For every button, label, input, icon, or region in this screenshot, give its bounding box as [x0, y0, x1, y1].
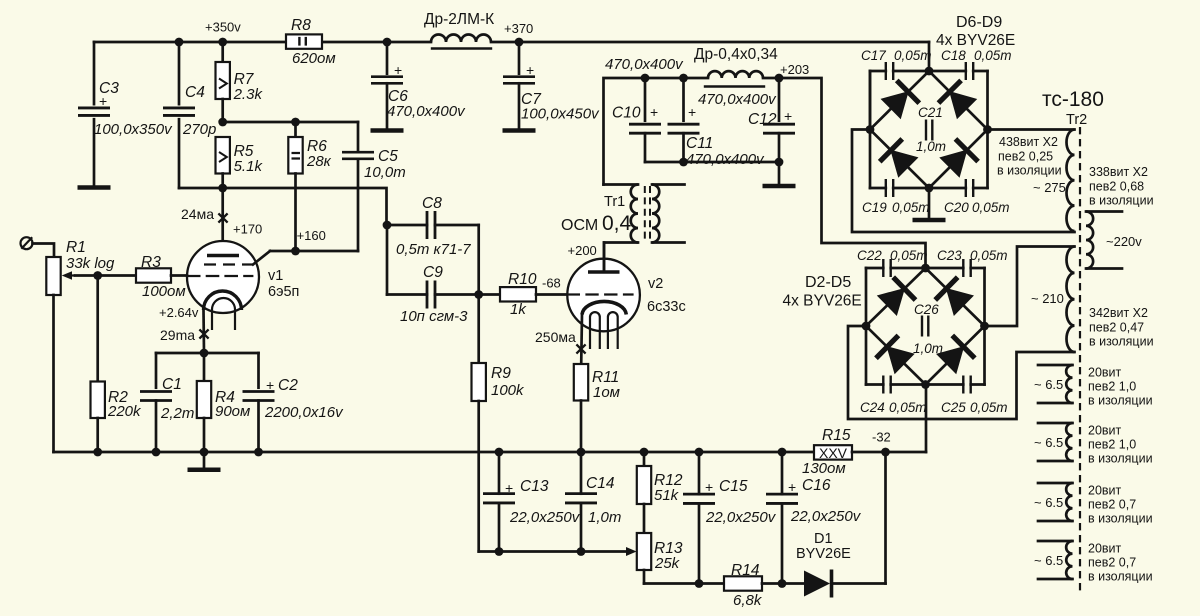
svg-text:C19: C19	[862, 200, 887, 215]
wire v1 cathode node	[156, 352, 259, 355]
svg-text:R14: R14	[731, 562, 760, 579]
capacitor C19	[862, 179, 930, 215]
resistor R2	[91, 276, 143, 453]
wire C10-C11-C12 bottom	[645, 161, 779, 164]
svg-text:+370: +370	[504, 21, 533, 36]
svg-text:220k: 220k	[107, 403, 142, 420]
svg-text:пев2 0,47: пев2 0,47	[1089, 320, 1144, 334]
node +370 label	[504, 21, 533, 36]
svg-text:1k: 1k	[510, 301, 527, 318]
ground bridge D6-D9	[913, 188, 946, 220]
resistor R8	[286, 17, 336, 67]
svg-text:+: +	[788, 479, 796, 495]
label +200	[568, 243, 597, 258]
svg-text:ОСМ: ОСМ	[561, 217, 598, 234]
svg-text:+: +	[394, 62, 402, 78]
svg-text:100ом: 100ом	[142, 283, 186, 300]
svg-text:v2: v2	[648, 276, 663, 292]
svg-text:22,0x250v: 22,0x250v	[790, 508, 862, 525]
wire D1 to -32 node	[884, 452, 887, 584]
svg-text:XXV: XXV	[819, 445, 848, 461]
node dot R6 bottom	[291, 247, 300, 256]
svg-text:25k: 25k	[654, 555, 681, 572]
node dot bridge2 top	[921, 264, 930, 273]
svg-text:C14: C14	[586, 475, 615, 492]
node dot bridge2 right	[980, 322, 989, 331]
svg-text:в изоляции: в изоляции	[1088, 512, 1153, 526]
capacitor C23	[937, 248, 1008, 277]
svg-text:в изоляции: в изоляции	[1089, 194, 1154, 208]
svg-text:4x BYV26E: 4x BYV26E	[936, 32, 1015, 49]
capacitor C25	[941, 376, 1008, 416]
svg-text:C18: C18	[941, 48, 966, 63]
svg-text:0,05m: 0,05m	[894, 48, 932, 63]
svg-text:+: +	[650, 104, 658, 120]
svg-text:0,05m: 0,05m	[970, 400, 1008, 415]
svg-text:20вит: 20вит	[1088, 366, 1122, 380]
svg-text:~220v: ~220v	[1106, 234, 1142, 249]
svg-text:20вит: 20вит	[1088, 484, 1122, 498]
resistor R10	[479, 271, 568, 318]
svg-text:0,05m: 0,05m	[889, 400, 927, 415]
capacitor C5	[342, 122, 406, 251]
svg-text:C20: C20	[944, 200, 969, 215]
svg-text:C5: C5	[378, 148, 398, 165]
capacitor C18	[941, 48, 1012, 80]
svg-text:438вит Х2: 438вит Х2	[999, 135, 1058, 149]
transformer Tr1 ОСМ 0,4	[561, 185, 685, 273]
svg-text:20вит: 20вит	[1088, 424, 1122, 438]
label D6-D9	[936, 14, 1015, 49]
svg-text:D1: D1	[814, 531, 833, 547]
node dot v2 grid	[474, 290, 483, 299]
svg-text:R1: R1	[66, 239, 86, 256]
node dot bridge1 top	[925, 67, 934, 76]
svg-text:100,0x450v: 100,0x450v	[521, 106, 600, 123]
Tr2 winding 20вит #3	[1034, 483, 1153, 526]
svg-text:51k: 51k	[654, 487, 680, 504]
svg-text:C9: C9	[423, 264, 443, 281]
wire R1 wiper to R3	[75, 274, 136, 277]
svg-text:пев2 1,0: пев2 1,0	[1088, 379, 1136, 393]
Tr2 winding 220v	[1086, 165, 1154, 269]
svg-text:C8: C8	[422, 195, 442, 212]
Tr2 winding 20вит #4	[1034, 541, 1153, 584]
diode D7	[938, 80, 976, 118]
svg-text:+: +	[266, 377, 274, 393]
svg-text:D6-D9: D6-D9	[956, 14, 1002, 31]
node +350v label	[205, 20, 241, 35]
node dot C10 top	[641, 74, 650, 83]
svg-text:10п сгм-3: 10п сгм-3	[400, 308, 468, 325]
capacitor C6	[371, 42, 466, 129]
wire bridge2 AC left	[848, 326, 1075, 419]
svg-text:470,0x400v: 470,0x400v	[698, 91, 777, 108]
resistor R11	[574, 364, 620, 452]
capacitor C22	[857, 248, 928, 277]
node dot bridge1 bottom	[925, 184, 934, 193]
svg-text:+: +	[688, 104, 696, 120]
svg-text:338вит Х2: 338вит Х2	[1089, 165, 1148, 179]
node dot +350v	[218, 38, 227, 47]
resistor R4	[197, 353, 251, 452]
svg-text:90ом: 90ом	[215, 403, 250, 420]
capacitor C11	[668, 78, 766, 168]
resistor R14	[724, 562, 804, 609]
node dot gnd C13	[495, 448, 504, 457]
svg-text:C23: C23	[937, 248, 962, 263]
svg-text:+203: +203	[780, 62, 809, 77]
resistor R12	[637, 452, 683, 504]
resistor R6	[288, 122, 331, 251]
svg-text:+: +	[526, 62, 534, 78]
wire bridge2 AC right	[985, 247, 1075, 327]
inductor Др-0,4х0,34	[694, 46, 778, 87]
svg-text:~ 6.5: ~ 6.5	[1034, 495, 1063, 510]
Tr2 winding 20вит #1	[1034, 365, 1153, 408]
svg-text:Tr1: Tr1	[604, 194, 625, 210]
node dot C6 top	[383, 38, 392, 47]
svg-text:~ 6.5: ~ 6.5	[1034, 435, 1063, 450]
resistor R5	[216, 137, 264, 188]
svg-text:~ 210: ~ 210	[1031, 291, 1064, 306]
node dot bridge1 right	[983, 125, 992, 134]
node dot C11 bottom	[679, 158, 688, 167]
wire bridge2 frame	[866, 268, 985, 385]
label 29ma with X	[160, 327, 209, 343]
capacitor C9	[387, 264, 479, 325]
svg-text:29ma: 29ma	[160, 327, 195, 343]
svg-text:0,05m: 0,05m	[974, 48, 1012, 63]
svg-text:пев2 0,25: пев2 0,25	[998, 149, 1053, 163]
svg-text:C16: C16	[802, 477, 831, 494]
svg-text:+: +	[705, 479, 713, 495]
svg-text:342вит Х2: 342вит Х2	[1089, 306, 1148, 320]
svg-text:0,4: 0,4	[602, 212, 632, 235]
svg-text:Др-2ЛМ-К: Др-2ЛМ-К	[424, 11, 494, 28]
node dot R6 top	[291, 118, 300, 127]
svg-text:в изоляции: в изоляции	[1088, 570, 1153, 584]
capacitor C10	[605, 56, 684, 162]
wire bias wiper rail	[479, 547, 637, 556]
node dot gnd C15	[695, 448, 704, 457]
wire v1 anode node	[179, 188, 387, 225]
wire -32 to bridge D2-D5	[925, 385, 928, 453]
svg-text:+: +	[784, 108, 792, 124]
svg-text:+: +	[99, 93, 107, 109]
ground C7	[503, 128, 536, 133]
svg-text:C22: C22	[857, 248, 882, 263]
resistor R7	[216, 42, 264, 122]
wire +350v/+370 top rail	[94, 42, 929, 71]
svg-text:R8: R8	[291, 17, 311, 34]
svg-text:C24: C24	[860, 400, 885, 415]
svg-text:130ом: 130ом	[802, 460, 846, 477]
capacitor C15	[683, 452, 777, 584]
diode D1 BYV26E	[796, 531, 886, 598]
diode D4	[876, 335, 914, 373]
svg-text:пев2 0,7: пев2 0,7	[1088, 497, 1136, 511]
svg-text:0,05m: 0,05m	[890, 248, 928, 263]
svg-text:C13: C13	[520, 478, 549, 495]
Tr2 winding 438вит	[997, 130, 1075, 232]
svg-text:тс-180: тс-180	[1042, 88, 1104, 111]
triode v1 6э5п	[187, 188, 299, 353]
svg-text:270p: 270p	[182, 121, 216, 138]
svg-text:5.1k: 5.1k	[234, 158, 264, 175]
node dot +203	[775, 74, 784, 83]
svg-text:~ 6.5: ~ 6.5	[1034, 553, 1063, 568]
svg-text:24ма: 24ма	[181, 206, 214, 222]
label +160	[297, 228, 326, 243]
svg-text:2200,0x16v: 2200,0x16v	[264, 404, 344, 421]
potentiometer R1	[46, 239, 115, 452]
capacitor C13	[483, 452, 581, 552]
node dot C11 top	[679, 74, 688, 83]
diode D8	[880, 139, 918, 177]
svg-text:+170: +170	[233, 222, 262, 237]
svg-text:в изоляции: в изоляции	[1088, 394, 1153, 408]
ground symbol bottom rail	[188, 452, 221, 470]
svg-text:Др-0,4x0,34: Др-0,4x0,34	[694, 46, 778, 63]
diode D2	[878, 277, 916, 315]
label +170	[233, 222, 262, 237]
diode D6	[881, 80, 919, 118]
label D2-D5	[783, 274, 862, 310]
svg-text:28к: 28к	[306, 153, 332, 170]
resistor R3	[136, 254, 187, 300]
svg-text:0,05m: 0,05m	[892, 200, 930, 215]
svg-text:22,0x250v: 22,0x250v	[509, 509, 581, 526]
svg-text:1,0m: 1,0m	[588, 509, 621, 526]
node dot C12 bottom	[775, 158, 784, 167]
svg-text:+200: +200	[568, 243, 597, 258]
capacitor C21	[916, 105, 946, 154]
svg-text:+160: +160	[297, 228, 326, 243]
ground C6	[371, 128, 404, 133]
wire -32 rail	[852, 451, 926, 454]
svg-text:C11: C11	[686, 135, 713, 152]
svg-text:в изоляции: в изоляции	[1089, 335, 1154, 349]
capacitor C24	[860, 376, 927, 416]
svg-text:1,0m: 1,0m	[916, 139, 946, 154]
node dot C14 bottom	[577, 547, 586, 556]
svg-text:C10: C10	[612, 105, 641, 122]
wire node +160 feed line	[223, 121, 358, 124]
diode D9	[940, 139, 978, 177]
svg-text:C25: C25	[941, 400, 966, 415]
svg-text:C1: C1	[162, 376, 182, 393]
svg-text:100k: 100k	[491, 382, 525, 399]
node dot gnd C16	[778, 448, 787, 457]
svg-text:C21: C21	[918, 105, 943, 120]
label 250ма with X	[535, 329, 586, 354]
svg-text:C4: C4	[185, 84, 205, 101]
svg-text:R15: R15	[822, 427, 851, 444]
svg-text:0,05m: 0,05m	[972, 200, 1010, 215]
svg-text:1ом: 1ом	[593, 384, 620, 401]
node dot v1 cathode	[200, 349, 209, 358]
capacitor C8	[387, 195, 479, 258]
transformer Tr2 тс-180 core	[1042, 88, 1104, 592]
capacitor C17	[861, 48, 932, 80]
svg-text:v1: v1	[268, 268, 283, 284]
svg-text:C12: C12	[748, 111, 777, 128]
resistor R15	[802, 427, 852, 477]
svg-text:R3: R3	[141, 254, 161, 271]
capacitor C16	[766, 452, 862, 584]
svg-text:2.3k: 2.3k	[233, 86, 264, 103]
resistor R9	[472, 295, 526, 552]
svg-text:6э5п: 6э5п	[268, 284, 299, 300]
svg-text:-32: -32	[872, 430, 891, 445]
label -32	[872, 430, 891, 445]
node dot gnd R2	[93, 448, 102, 457]
svg-text:в изоляции: в изоляции	[997, 164, 1062, 178]
svg-text:4x BYV26E: 4x BYV26E	[783, 293, 862, 310]
ground C3	[78, 185, 111, 190]
svg-text:2,2m: 2,2m	[160, 405, 194, 422]
node dot v1 anode	[218, 184, 227, 193]
svg-text:+: +	[505, 480, 513, 496]
node dot bridge1 left	[866, 125, 875, 134]
Tr2 winding 20вит #2	[1034, 423, 1153, 466]
node dot R2 top	[93, 271, 102, 280]
svg-text:C15: C15	[719, 478, 748, 495]
svg-text:+350v: +350v	[205, 20, 241, 35]
node dot C4 top	[175, 38, 184, 47]
svg-text:пев2 0,7: пев2 0,7	[1088, 555, 1136, 569]
node dot C16 bottom	[778, 579, 787, 588]
triode v2 6с33с	[567, 243, 685, 365]
capacitor C20	[944, 179, 1010, 215]
capacitor C26	[913, 302, 943, 356]
Tr2 winding 342вит	[1031, 247, 1154, 353]
svg-text:Tr2: Tr2	[1066, 112, 1087, 128]
node dot C15 bottom	[695, 579, 704, 588]
svg-text:470,0x400v: 470,0x400v	[686, 151, 765, 168]
node dot R5 top	[218, 118, 227, 127]
svg-text:пев2 1,0: пев2 1,0	[1088, 437, 1136, 451]
wire bridge2 plus to +203	[779, 78, 926, 268]
svg-text:0,5m к71-7: 0,5m к71-7	[396, 241, 471, 258]
label -68	[542, 276, 561, 291]
svg-text:22,0x250v: 22,0x250v	[705, 509, 777, 526]
wire bias bottom rail	[644, 582, 724, 585]
label +2.64v	[159, 305, 199, 320]
diode D3	[935, 277, 973, 315]
rectifier bridge D6-D9	[869, 71, 872, 130]
wire bridge1 frame	[870, 71, 988, 188]
capacitor C12	[698, 78, 795, 184]
svg-text:C26: C26	[914, 302, 939, 317]
svg-text:в изоляции: в изоляции	[1088, 452, 1153, 466]
label +203	[780, 62, 809, 77]
capacitor C7	[503, 42, 600, 129]
svg-text:6с33с: 6с33с	[647, 299, 686, 315]
capacitor C3	[78, 42, 173, 186]
svg-text:+2.64v: +2.64v	[159, 305, 199, 320]
node dot gnd C1	[152, 448, 161, 457]
svg-text:C17: C17	[861, 48, 886, 63]
wire anode to C8/C9	[386, 225, 389, 295]
wire C8 right to grid node	[477, 225, 480, 295]
svg-text:пев2 0,68: пев2 0,68	[1089, 179, 1144, 193]
node dot C8 left	[383, 221, 392, 230]
svg-text:~ 275: ~ 275	[1033, 180, 1066, 195]
node dot bridge2 left	[862, 322, 871, 331]
svg-text:20вит: 20вит	[1088, 542, 1122, 556]
diode D5	[937, 335, 975, 373]
node dot -32	[881, 448, 890, 457]
node dot gnd R11	[577, 448, 586, 457]
label 24ма with X	[181, 206, 228, 223]
wire +160 screen line	[270, 250, 358, 253]
capacitor C2	[243, 353, 345, 452]
node dot gnd R4	[200, 448, 209, 457]
svg-text:-68: -68	[542, 276, 561, 291]
svg-text:R9: R9	[491, 365, 511, 382]
svg-text:470,0x400v: 470,0x400v	[605, 56, 684, 73]
svg-text:33k log: 33k log	[66, 255, 115, 272]
capacitor C1	[140, 353, 194, 452]
svg-text:470,0x400v: 470,0x400v	[387, 103, 466, 120]
ground C12	[763, 184, 796, 189]
capacitor C14	[565, 452, 621, 552]
svg-text:10,0m: 10,0m	[364, 164, 406, 181]
wire +203 rail	[604, 78, 780, 185]
inductor Др-2ЛМ-К	[424, 11, 494, 49]
node dot gnd C2	[254, 448, 263, 457]
svg-text:0,05m: 0,05m	[970, 248, 1008, 263]
svg-text:R10: R10	[508, 271, 537, 288]
svg-text:620ом: 620ом	[292, 50, 336, 67]
node dot +370	[515, 38, 524, 47]
node dot C13 bottom	[495, 547, 504, 556]
wire bridge1 AC return	[852, 130, 1075, 233]
svg-text:6,8k: 6,8k	[733, 592, 763, 609]
svg-text:100,0x350v: 100,0x350v	[94, 121, 173, 138]
node dot bridge2 bottom	[921, 380, 930, 389]
capacitor C4	[163, 42, 216, 188]
svg-text:D2-D5: D2-D5	[805, 274, 851, 291]
svg-text:C2: C2	[278, 377, 298, 394]
wire bridge1 AC to Tr2	[988, 128, 1075, 131]
potentiometer R13	[637, 504, 683, 584]
node dot gnd R12	[640, 448, 649, 457]
svg-text:~ 6.5: ~ 6.5	[1034, 377, 1063, 392]
svg-text:250ма: 250ма	[535, 329, 576, 345]
input terminal X1	[21, 237, 55, 257]
wire ground rail	[54, 451, 815, 454]
svg-text:BYV26E: BYV26E	[796, 546, 851, 562]
